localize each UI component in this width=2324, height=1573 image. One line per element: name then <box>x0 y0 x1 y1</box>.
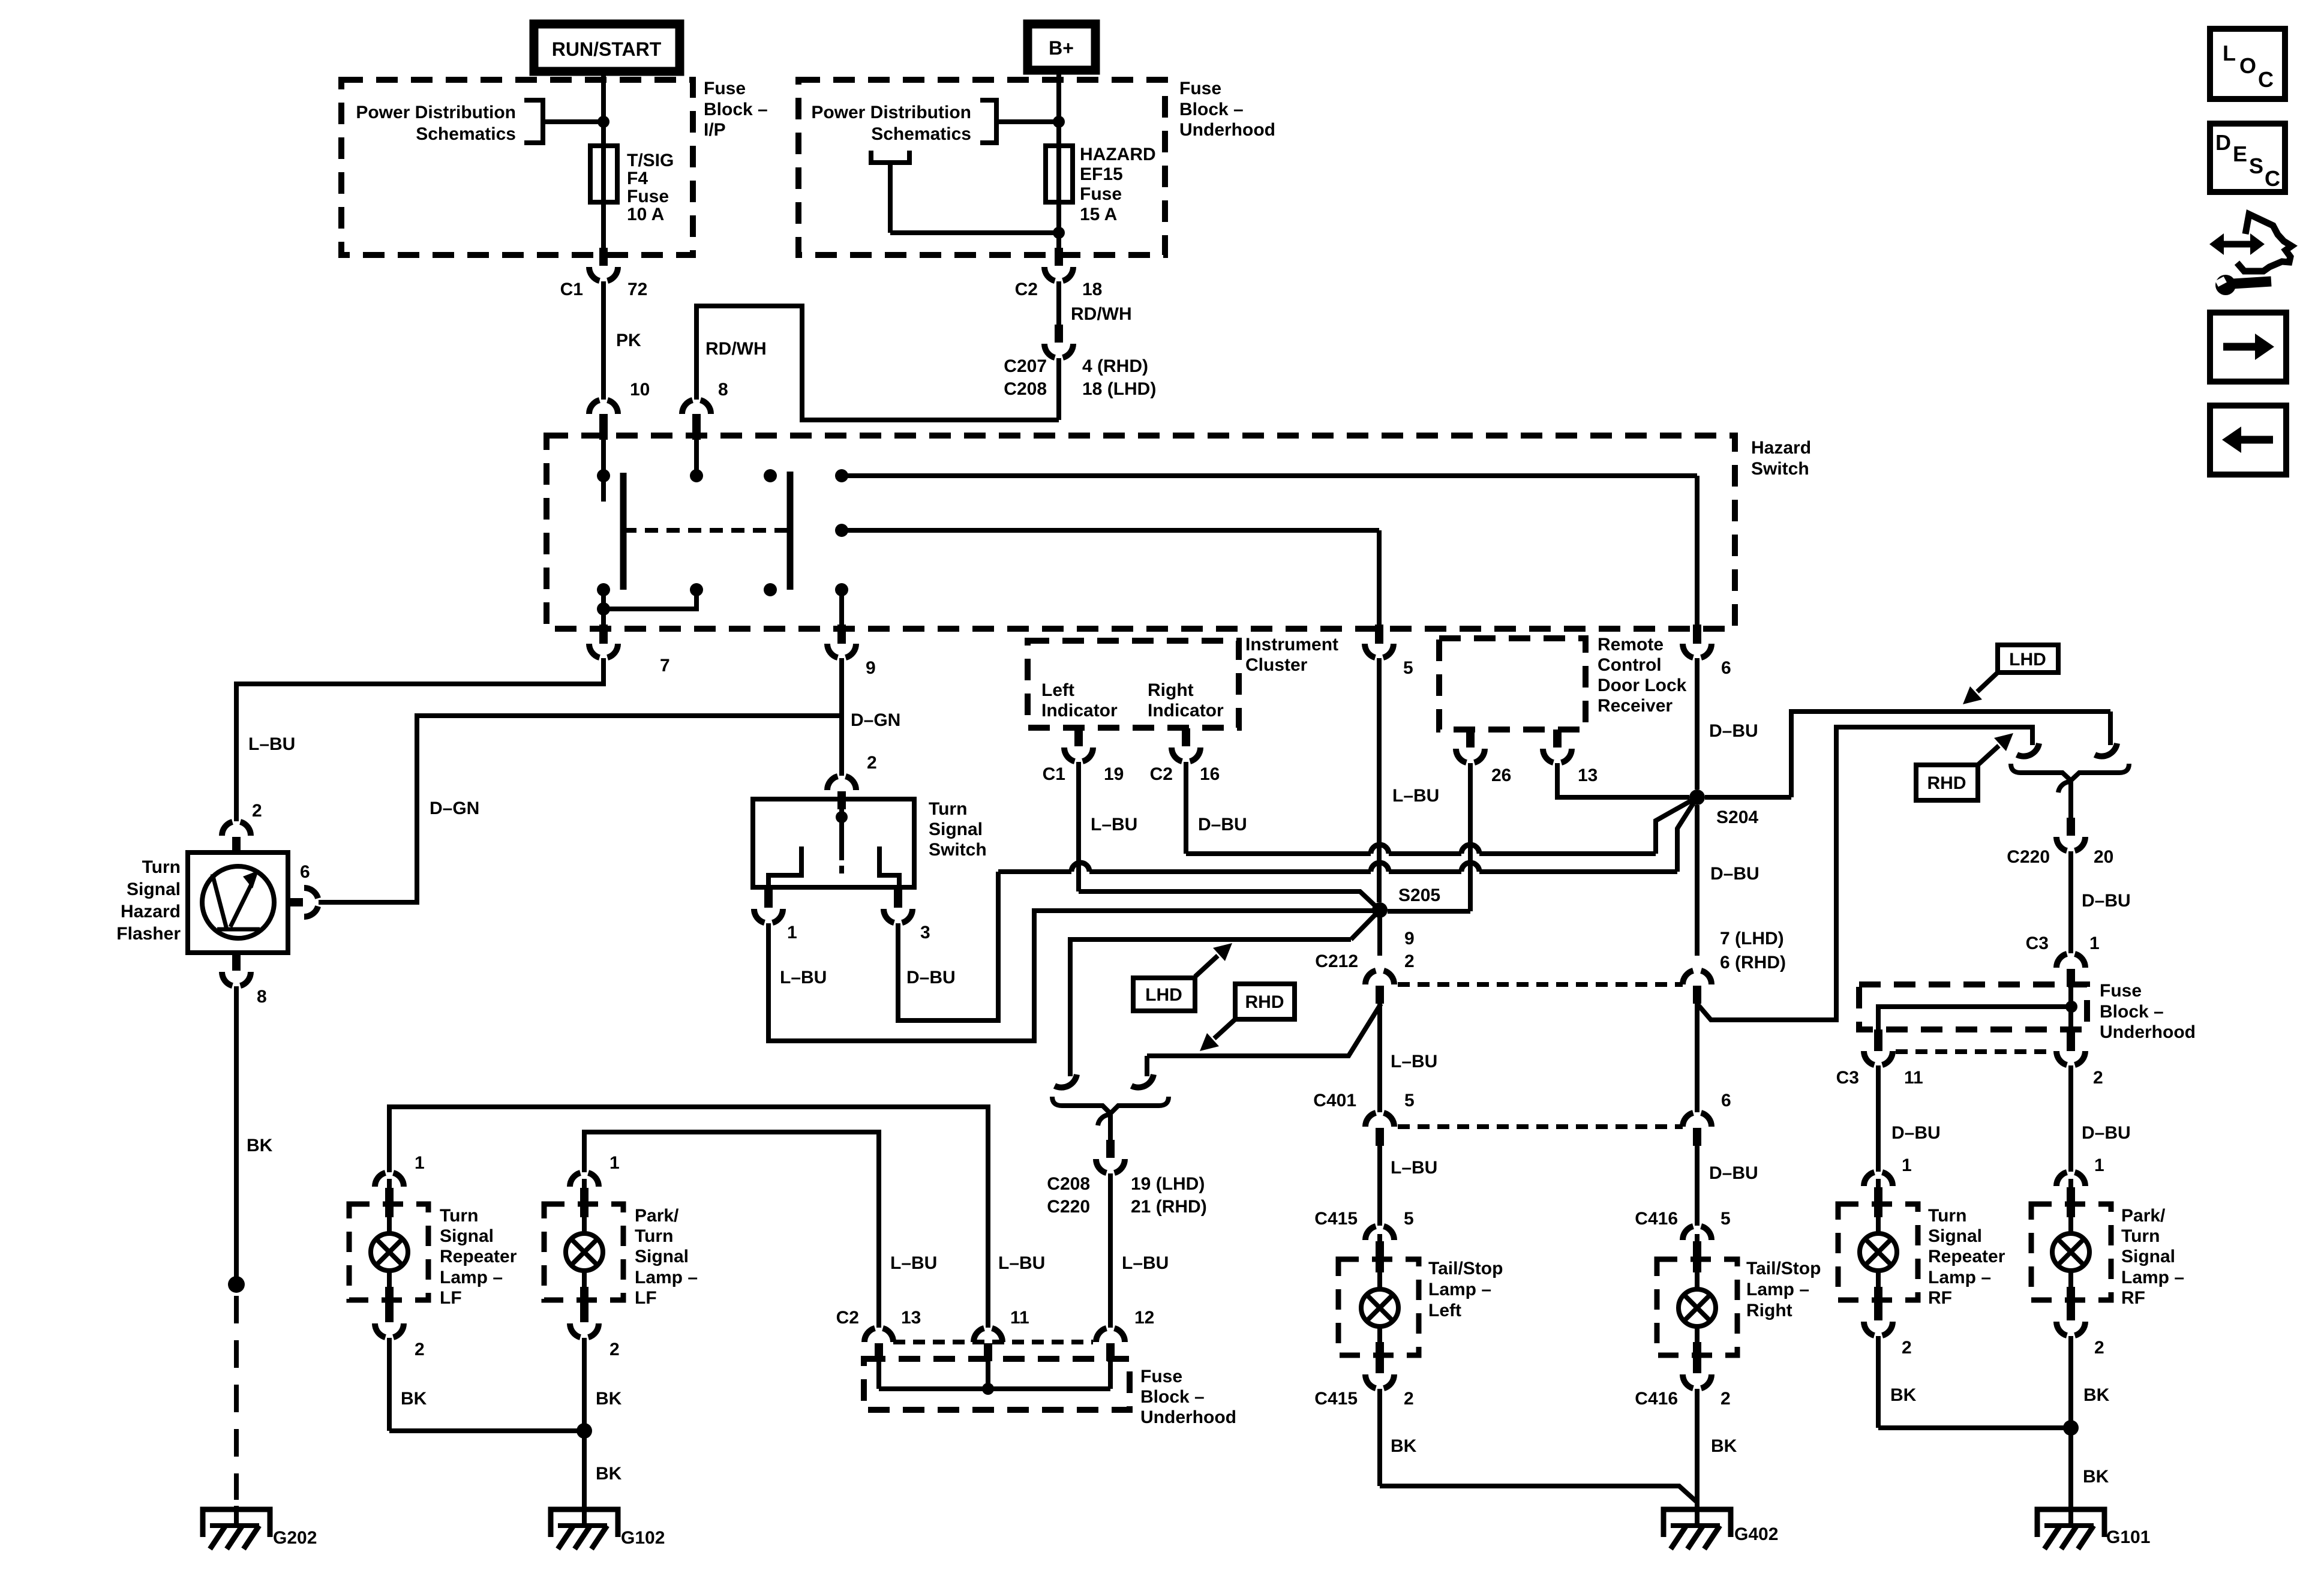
svg-text:D–BU: D–BU <box>1891 1123 1941 1143</box>
svg-text:Lamp –: Lamp – <box>440 1268 503 1287</box>
connector C415 pin 5 <box>1314 1209 1413 1259</box>
label L-BU fuse11 <box>998 1253 1045 1273</box>
svg-text:L–BU: L–BU <box>890 1253 937 1273</box>
label Fuse Block - Underhood (bottom) <box>1140 1367 1236 1427</box>
wire to C2 <box>1056 233 1061 248</box>
wire RHD jog to right merge <box>1697 727 2032 1020</box>
svg-text:BK: BK <box>1391 1436 1417 1456</box>
connector pin 10 hazard switch <box>589 400 618 433</box>
svg-text:Hazard: Hazard <box>121 902 181 921</box>
svg-text:C416: C416 <box>1635 1209 1678 1229</box>
svg-text:C1: C1 <box>560 280 583 299</box>
svg-text:O: O <box>2239 53 2256 78</box>
dashed link C212 to right connector <box>1398 982 1683 987</box>
connector C2 pin 18 <box>1015 248 1103 299</box>
wire inside right fuse box <box>1878 987 2077 1032</box>
svg-text:9: 9 <box>1404 929 1415 948</box>
svg-text:BK: BK <box>596 1389 622 1409</box>
svg-text:Block –: Block – <box>2100 1002 2164 1022</box>
svg-text:Indicator: Indicator <box>1041 701 1118 721</box>
svg-text:16: 16 <box>1200 764 1220 784</box>
connector flasher pin 8 <box>222 953 267 1007</box>
svg-text:C416: C416 <box>1635 1389 1678 1409</box>
svg-text:BK: BK <box>1711 1436 1737 1456</box>
svg-text:2: 2 <box>867 753 877 773</box>
u-bracket power distribution feed <box>871 151 1059 233</box>
wire RUN/START to fuse block <box>601 71 606 146</box>
svg-text:D–BU: D–BU <box>2082 891 2131 911</box>
connector C3 pin 1 <box>2026 933 2100 987</box>
svg-text:Turn: Turn <box>635 1226 673 1246</box>
bracket to power distribution (underhood) <box>980 100 1059 143</box>
bracket to power distribution (I/P) <box>524 100 603 143</box>
svg-text:F4: F4 <box>627 169 648 188</box>
svg-text:Door Lock: Door Lock <box>1598 676 1687 695</box>
svg-text:C212: C212 <box>1315 951 1358 971</box>
connector C415 pin 2 <box>1314 1355 1413 1409</box>
connector pin 6 below hazard <box>1683 625 1731 678</box>
connector C1 pin 19 <box>1043 728 1124 784</box>
svg-text:Turn: Turn <box>1928 1206 1966 1226</box>
connector C416 pin 5 <box>1635 1209 1730 1259</box>
label Tail/Stop Lamp - Right <box>1746 1259 1821 1320</box>
hazard switch mech link dashed <box>623 528 790 533</box>
flasher symbol <box>202 866 274 938</box>
svg-text:LHD: LHD <box>1145 985 1182 1005</box>
svg-text:L–BU: L–BU <box>1391 1052 1437 1071</box>
svg-text:C1: C1 <box>1043 764 1065 784</box>
svg-text:Right: Right <box>1746 1301 1792 1320</box>
wire BK RF park <box>2071 1336 2110 1509</box>
ground G101 <box>2037 1506 2150 1549</box>
svg-text:2: 2 <box>2093 1068 2103 1088</box>
wire inside bottom fuse box <box>879 1361 1110 1395</box>
svg-text:Fuse: Fuse <box>2100 981 2142 1001</box>
svg-text:L–BU: L–BU <box>1392 786 1439 806</box>
tail stop lamp right <box>1657 1234 1737 1367</box>
svg-text:BK: BK <box>2083 1385 2110 1405</box>
ground G202 <box>203 1506 317 1549</box>
flag RHD right <box>1916 733 2013 800</box>
merge hook to wire left <box>1098 1115 1110 1140</box>
wire D-GN flasher to switch <box>319 716 842 902</box>
svg-text:D: D <box>2215 130 2231 155</box>
fuse block underhood dashed box (top) <box>798 80 1165 255</box>
hop pin3 wire over pin26 wire <box>1461 863 1479 872</box>
icon LOC <box>2210 29 2285 99</box>
svg-text:2: 2 <box>415 1340 425 1359</box>
svg-text:C415: C415 <box>1314 1209 1358 1229</box>
fuse block underhood dashed box (right) <box>1859 984 2087 1029</box>
svg-text:RHD: RHD <box>1927 773 1966 793</box>
connector TSS pin 3 <box>884 890 930 942</box>
svg-text:Left: Left <box>1428 1301 1461 1320</box>
hazard switch bar right <box>787 472 794 590</box>
wire C401 to C415 <box>1380 1146 1437 1226</box>
connector pin 5 below hazard <box>1365 625 1413 678</box>
svg-text:2: 2 <box>1902 1338 1912 1358</box>
hop C2-16 wire over pin5 wire <box>1371 845 1389 854</box>
svg-text:C2: C2 <box>1150 764 1173 784</box>
hazard output node row1 <box>835 469 1697 482</box>
svg-text:15 A: 15 A <box>1080 205 1117 224</box>
svg-text:L–BU: L–BU <box>1091 815 1137 834</box>
svg-text:Fuse: Fuse <box>1080 184 1122 204</box>
svg-text:19 (LHD): 19 (LHD) <box>1131 1174 1205 1194</box>
svg-text:18: 18 <box>1082 280 1102 299</box>
connector C3 pin 2 <box>2056 1029 2103 1088</box>
wire pin1 to S205 <box>768 911 1373 1041</box>
label T/SIG F4 Fuse 10 A <box>627 151 674 224</box>
wire D-BU C220 to C3 <box>2071 851 2131 953</box>
svg-text:Fuse: Fuse <box>704 79 746 98</box>
label Turn Signal Repeater Lamp - RF <box>1928 1206 2005 1308</box>
hook RHD branch left merge <box>1131 1074 1154 1088</box>
connector RF park pin 1 <box>2056 1155 2104 1205</box>
svg-text:G101: G101 <box>2106 1527 2150 1547</box>
label Fuse Block - I/P <box>704 79 768 140</box>
svg-text:Signal: Signal <box>1928 1226 1982 1246</box>
park turn signal lamp RF <box>2031 1179 2111 1312</box>
wire D-BU C3-11 to RF repeater <box>1878 1065 1941 1172</box>
wire pin5 hazard to S205 <box>1379 658 1439 902</box>
connector LF repeater pin 2 <box>375 1304 425 1359</box>
wire pin9 to switch <box>842 658 900 776</box>
svg-text:Tail/Stop: Tail/Stop <box>1428 1259 1503 1278</box>
svg-text:Hazard: Hazard <box>1751 438 1811 458</box>
svg-text:13: 13 <box>901 1308 921 1328</box>
splice S205 <box>1372 885 1440 918</box>
svg-text:G102: G102 <box>621 1528 665 1548</box>
connector LF repeater pin 1 <box>375 1153 425 1206</box>
svg-text:3: 3 <box>920 923 930 942</box>
hazard pin7 contact <box>597 583 610 625</box>
svg-text:C220: C220 <box>2007 847 2050 867</box>
svg-text:Repeater: Repeater <box>1928 1247 2005 1266</box>
label Instrument Cluster <box>1245 635 1338 675</box>
svg-text:C3: C3 <box>2026 933 2049 953</box>
icon service info <box>2209 214 2292 295</box>
merge brace right <box>2011 764 2129 781</box>
svg-text:21 (RHD): 21 (RHD) <box>1131 1197 1207 1217</box>
connector pin 8 hazard switch <box>682 400 711 433</box>
svg-text:C208: C208 <box>1004 379 1047 399</box>
node junction on T/SIG feed <box>597 116 609 128</box>
wire S205 down to C212 <box>1315 910 1414 971</box>
svg-text:26: 26 <box>1491 766 1511 785</box>
svg-text:L–BU: L–BU <box>248 734 295 754</box>
svg-text:S: S <box>2249 154 2263 178</box>
connector C220 pin 20 <box>2007 818 2113 867</box>
label Fuse Block - Underhood (top) <box>1179 79 1275 140</box>
TSS contact left <box>768 846 801 887</box>
svg-text:1: 1 <box>2094 1155 2104 1175</box>
label Tail/Stop Lamp - Left <box>1428 1259 1503 1320</box>
svg-text:12: 12 <box>1134 1308 1154 1328</box>
svg-text:7 (LHD): 7 (LHD) <box>1720 929 1784 948</box>
wire S204 right to LHD riser <box>1705 712 2110 797</box>
svg-text:I/P: I/P <box>704 120 726 140</box>
wire S204 to connector 7LHD/6RHD <box>1697 805 1786 972</box>
svg-text:5: 5 <box>1404 1091 1415 1110</box>
svg-text:Fuse: Fuse <box>627 187 669 206</box>
svg-text:Park/: Park/ <box>635 1206 679 1226</box>
svg-text:19: 19 <box>1104 764 1124 784</box>
merge hook to wire right <box>2058 782 2071 818</box>
svg-text:1: 1 <box>2089 933 2100 953</box>
label L-BU fuse13 <box>890 1253 937 1273</box>
svg-text:Right: Right <box>1148 680 1194 700</box>
svg-text:G402: G402 <box>1734 1524 1778 1544</box>
svg-text:Block –: Block – <box>704 100 768 119</box>
svg-text:RUN/START: RUN/START <box>552 38 662 60</box>
connector flasher pin 2 <box>222 822 251 855</box>
svg-text:8: 8 <box>718 380 728 400</box>
svg-text:BK: BK <box>596 1464 622 1484</box>
merge brace left <box>1052 1097 1169 1113</box>
hazard pin10 contact <box>597 414 610 502</box>
connector receiver pin 26 <box>1456 730 1511 785</box>
wire pin6 inside hazard <box>1695 476 1700 625</box>
svg-text:Receiver: Receiver <box>1598 696 1673 716</box>
icon arrow left <box>2210 406 2286 475</box>
hazard switch dashed box <box>547 436 1735 629</box>
svg-text:EF15: EF15 <box>1080 164 1123 184</box>
svg-text:Lamp –: Lamp – <box>1928 1268 1991 1287</box>
svg-text:18 (LHD): 18 (LHD) <box>1082 379 1156 399</box>
node BK splice G101 <box>2063 1420 2079 1436</box>
connector C2 pin 16 <box>1150 728 1220 784</box>
ground G402 <box>1664 1506 1778 1549</box>
turn signal switch box <box>753 799 914 887</box>
turn signal repeater lamp RF <box>1838 1179 1918 1312</box>
svg-text:D–BU: D–BU <box>1709 721 1758 741</box>
node BK splice G102 <box>577 1423 592 1439</box>
svg-text:5: 5 <box>1404 1209 1414 1229</box>
svg-text:BK: BK <box>247 1136 273 1155</box>
wire pin26 to S205 <box>1388 763 1470 911</box>
label HAZARD EF15 Fuse 15 A <box>1080 145 1156 224</box>
svg-text:T/SIG: T/SIG <box>627 151 674 170</box>
label Park/Turn Signal Lamp - LF <box>635 1206 698 1308</box>
svg-text:6: 6 <box>300 862 310 882</box>
wire BK left tail to G402 <box>1380 1389 1697 1502</box>
wire 7LHD down to 6 <box>1695 1004 1700 1112</box>
turn signal repeater lamp LF <box>349 1179 428 1312</box>
svg-text:Turn: Turn <box>142 857 181 877</box>
fuse block I/P dashed box <box>341 80 693 255</box>
dotted link right fuse box <box>1896 1049 2054 1054</box>
svg-text:D–GN: D–GN <box>851 710 900 730</box>
connector C207/C208 <box>1004 325 1156 399</box>
svg-text:L–BU: L–BU <box>1122 1253 1169 1273</box>
svg-text:4 (RHD): 4 (RHD) <box>1082 356 1148 376</box>
label Park/Turn Signal Lamp - RF <box>2121 1206 2184 1308</box>
svg-text:D–BU: D–BU <box>1198 815 1247 834</box>
svg-text:C: C <box>2258 67 2274 92</box>
svg-text:BK: BK <box>2083 1467 2109 1487</box>
wire B+ to fuse block <box>1056 70 1061 146</box>
svg-text:D–BU: D–BU <box>906 968 956 987</box>
turn signal hazard flasher box <box>188 852 288 953</box>
svg-text:Lamp –: Lamp – <box>2121 1268 2184 1287</box>
svg-text:G202: G202 <box>273 1528 317 1548</box>
svg-text:Lamp –: Lamp – <box>1746 1280 1809 1299</box>
svg-text:Lamp –: Lamp – <box>1428 1280 1491 1299</box>
svg-text:9: 9 <box>866 658 876 678</box>
connector TSS pin 2 <box>827 776 856 809</box>
connector C2 pin 11 <box>974 1308 1029 1361</box>
connector LF park pin 2 <box>570 1304 620 1359</box>
wire C212 to C401 <box>1380 1004 1437 1112</box>
svg-text:PK: PK <box>616 331 641 350</box>
svg-text:20: 20 <box>2094 847 2113 867</box>
node junction on HAZARD feed bottom <box>1053 227 1065 239</box>
svg-text:Power Distribution: Power Distribution <box>356 103 516 122</box>
svg-text:Instrument: Instrument <box>1245 635 1338 655</box>
TSS contact right <box>879 846 899 887</box>
svg-text:Signal: Signal <box>929 819 983 839</box>
svg-text:Turn: Turn <box>2121 1226 2160 1246</box>
wire D-BU C3-2 to RF park <box>2071 1065 2131 1172</box>
svg-text:C3: C3 <box>1836 1068 1859 1088</box>
svg-text:RF: RF <box>1928 1288 1952 1308</box>
svg-text:Indicator: Indicator <box>1148 701 1224 721</box>
hop pin3 wire over C1-19 <box>1071 863 1089 872</box>
svg-text:L–BU: L–BU <box>780 968 827 987</box>
remote control door lock receiver dashed box <box>1439 638 1586 730</box>
label Power Distribution Schematics (I/P) <box>356 103 516 144</box>
svg-text:Schematics: Schematics <box>871 124 971 144</box>
hook LHD branch left merge <box>1055 1074 1077 1088</box>
svg-text:L–BU: L–BU <box>998 1253 1045 1273</box>
svg-text:2: 2 <box>252 801 262 821</box>
hop C2-16 wire over pin26 wire <box>1461 845 1479 854</box>
svg-text:LHD: LHD <box>2009 650 2046 670</box>
label Left Indicator <box>1041 680 1118 721</box>
TSS lever <box>836 799 848 873</box>
svg-text:D–BU: D–BU <box>1710 864 1759 884</box>
instrument cluster dashed box <box>1028 641 1239 728</box>
wire RD/WH <box>1059 281 1132 325</box>
svg-text:8: 8 <box>257 987 267 1007</box>
svg-text:2: 2 <box>609 1340 620 1359</box>
fuse HAZARD EF15 15A <box>1046 122 1073 233</box>
label Fuse Block - Underhood (right) <box>2100 981 2196 1042</box>
fuse T/SIG F4 10A <box>590 122 617 202</box>
svg-text:1: 1 <box>415 1153 425 1173</box>
wire pin13 to S204 <box>1557 763 1689 797</box>
svg-text:Park/: Park/ <box>2121 1206 2166 1226</box>
svg-text:S205: S205 <box>1398 885 1440 905</box>
wire D-BU C2-16 to S204 <box>1186 762 1697 854</box>
svg-text:C: C <box>2265 166 2280 191</box>
svg-text:Lamp –: Lamp – <box>635 1268 698 1287</box>
svg-text:C2: C2 <box>836 1308 859 1328</box>
wire feed LF repeater <box>389 1107 988 1328</box>
node BK splice G202 <box>228 1276 245 1293</box>
power label RUN/START <box>534 24 680 71</box>
svg-text:Turn: Turn <box>929 799 967 819</box>
connector LF park pin 1 <box>570 1153 620 1206</box>
svg-text:RHD: RHD <box>1245 992 1284 1012</box>
wire pin6 hazard to S204 <box>1697 658 1758 789</box>
connector pin 9 below hazard <box>827 625 876 678</box>
connector C208/C220 19(LHD) 21(RHD) <box>1047 1140 1206 1217</box>
svg-text:LF: LF <box>440 1288 462 1308</box>
svg-text:C401: C401 <box>1313 1091 1356 1110</box>
svg-text:L: L <box>2223 41 2236 65</box>
svg-text:1: 1 <box>787 923 797 942</box>
svg-text:D–GN: D–GN <box>430 798 479 818</box>
wire BK LF park <box>584 1338 622 1509</box>
svg-text:B+: B+ <box>1049 37 1074 59</box>
svg-text:1: 1 <box>1902 1155 1912 1175</box>
svg-text:Switch: Switch <box>929 840 987 860</box>
hop pin3 wire over pin5 wire <box>1371 863 1389 872</box>
svg-text:Power Distribution: Power Distribution <box>811 103 971 122</box>
hook LHD branch right merge <box>2095 743 2117 757</box>
flag LHD middle <box>1133 943 1232 1011</box>
hazard output node row3 <box>835 583 848 625</box>
connector RF park pin 2 <box>2056 1302 2104 1358</box>
wire L-BU C208 to fuse pin12 <box>1110 1173 1169 1328</box>
wire BK LF repeater <box>389 1338 584 1431</box>
label Hazard Switch <box>1751 438 1811 479</box>
wire L-BU C1-19 to S205 <box>1079 762 1380 910</box>
svg-text:13: 13 <box>1578 766 1598 785</box>
svg-text:Fuse: Fuse <box>1179 79 1221 98</box>
svg-text:2: 2 <box>1404 1389 1414 1409</box>
svg-text:6 (RHD): 6 (RHD) <box>1720 953 1786 972</box>
svg-text:Left: Left <box>1041 680 1074 700</box>
svg-text:C415: C415 <box>1314 1389 1358 1409</box>
wire jog to hazard pin 8 <box>696 306 1059 420</box>
svg-text:Schematics: Schematics <box>416 124 516 144</box>
label Turn Signal Repeater Lamp - LF <box>440 1206 517 1308</box>
wire BK flasher to ground <box>236 986 273 1278</box>
wire C208 down to jog <box>1056 358 1061 420</box>
connector C2 pin 13 <box>836 1308 921 1361</box>
connector C3 pin 11 <box>1836 1029 1923 1088</box>
svg-text:5: 5 <box>1403 658 1413 678</box>
svg-text:5: 5 <box>1721 1209 1731 1229</box>
svg-text:10: 10 <box>630 380 650 400</box>
label L-BU pin1 <box>780 968 827 987</box>
dotted link bottom fuse box <box>893 1340 1093 1344</box>
svg-text:BK: BK <box>401 1389 427 1409</box>
svg-text:C207: C207 <box>1004 356 1047 376</box>
svg-text:Switch: Switch <box>1751 459 1809 479</box>
park turn signal lamp LF <box>544 1179 623 1312</box>
svg-text:D–BU: D–BU <box>1709 1163 1758 1183</box>
wire BK right tail <box>1697 1389 1737 1509</box>
wire C212 RHD branch <box>1147 1004 1381 1076</box>
svg-text:72: 72 <box>627 280 647 299</box>
svg-text:Underhood: Underhood <box>1140 1407 1236 1427</box>
wire pin5 inside hazard <box>1377 530 1382 625</box>
icon DESC <box>2210 124 2285 192</box>
wire pin3 to S204 <box>898 797 1697 1020</box>
power label B+ <box>1028 24 1095 70</box>
connector C2 pin 12 <box>1096 1308 1154 1361</box>
svg-text:10 A: 10 A <box>627 205 664 224</box>
label D-BU pin3 <box>906 968 956 987</box>
svg-text:L–BU: L–BU <box>1391 1158 1437 1178</box>
svg-text:Cluster: Cluster <box>1245 655 1308 675</box>
wire BK RF repeater <box>1878 1336 2064 1428</box>
svg-text:Signal: Signal <box>440 1226 494 1246</box>
